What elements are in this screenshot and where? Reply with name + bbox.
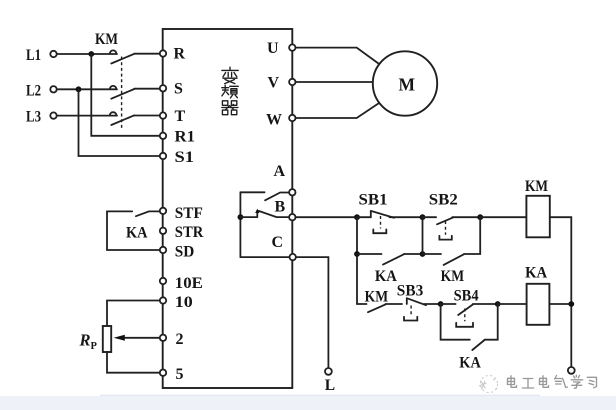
node rung1 left — [354, 214, 360, 220]
relay KA seal-in contact — [357, 254, 423, 265]
terminal STR — [160, 228, 166, 234]
node rung1 middle — [420, 214, 426, 220]
pushbutton SB3 (NC) — [404, 298, 439, 320]
svg-text:R: R — [174, 46, 186, 63]
svg-text:SD: SD — [175, 243, 195, 260]
terminal W — [289, 115, 295, 121]
svg-text:SB3: SB3 — [397, 283, 424, 300]
node L2/S1 tap junction — [76, 86, 82, 92]
watermark text char 电 — [540, 376, 549, 388]
terminal R — [160, 50, 166, 56]
wire W to motor — [296, 103, 380, 118]
coil KA — [527, 284, 550, 325]
wire U to motor — [296, 48, 380, 65]
node rung1 right — [477, 214, 483, 220]
contactor KM main contact phase R — [110, 50, 160, 63]
terminal R1 — [160, 133, 166, 139]
svg-text:S1: S1 — [175, 149, 195, 166]
terminal 5 — [160, 370, 166, 376]
terminal V — [289, 79, 295, 85]
terminal 2 — [160, 335, 166, 341]
terminal L3 — [50, 112, 56, 118]
terminal SD — [160, 247, 166, 253]
contactor KM main contact phase S — [110, 86, 160, 99]
pushbutton SB2 (NO start) — [423, 217, 479, 239]
node seal rung left — [354, 251, 360, 257]
terminal L — [325, 368, 332, 375]
terminal S1 — [160, 153, 166, 159]
svg-text:T: T — [175, 108, 186, 125]
svg-text:STF: STF — [175, 205, 203, 222]
terminal U — [289, 44, 295, 50]
watermark logo circle — [479, 375, 498, 392]
fault relay left loop vertical — [239, 192, 241, 257]
svg-text:L3: L3 — [26, 109, 41, 126]
svg-text:KA: KA — [525, 264, 547, 281]
wire L2 to KM contact — [57, 88, 117, 90]
svg-text:V: V — [268, 75, 280, 92]
watermark text char 学 — [571, 375, 582, 388]
svg-text:KM: KM — [365, 289, 389, 306]
svg-text:M: M — [399, 75, 416, 95]
svg-text:2: 2 — [176, 331, 184, 348]
wire left bus vertical — [356, 217, 358, 304]
terminal N (bottom right) — [568, 367, 575, 374]
contactor KM seal-in contact — [423, 217, 481, 265]
svg-text:B: B — [275, 199, 286, 216]
svg-text:10E: 10E — [175, 275, 203, 292]
terminal L2 — [50, 86, 56, 92]
watermark text char 习 — [587, 377, 596, 388]
svg-text:SB1: SB1 — [359, 191, 388, 208]
svg-text:10: 10 — [175, 294, 193, 311]
node rung2 right — [495, 301, 501, 307]
relay KA contact loop to STF — [107, 211, 160, 250]
svg-text:W: W — [266, 112, 282, 129]
contactor KM interlock contact rung2 — [357, 304, 402, 312]
terminal 10 — [160, 297, 166, 303]
motor M — [373, 51, 437, 115]
svg-text:KA: KA — [126, 224, 148, 241]
watermark text 电工电气学习 char 电 — [508, 376, 517, 388]
node right bus — [568, 301, 574, 307]
KM mechanical linkage dashed line — [121, 57, 123, 129]
bottom banner bar — [0, 396, 616, 410]
fault relay contact B side with wiper arrow — [240, 209, 289, 218]
svg-text:KM: KM — [525, 178, 548, 195]
svg-text:R1: R1 — [175, 128, 196, 145]
svg-text:KM: KM — [441, 268, 465, 285]
wire rung1 to KM coil — [480, 216, 526, 218]
relay KA parallel contact branch — [441, 304, 498, 350]
wire L3 to KM contact — [57, 115, 117, 117]
potentiometer RP body — [103, 326, 111, 352]
svg-text:S: S — [174, 81, 183, 98]
wire KM coil to right bus — [550, 217, 572, 367]
potentiometer wiper arrow to terminal 2 — [114, 335, 160, 341]
wire rung2 to KA coil — [498, 303, 527, 305]
label 变频器 char 变 — [222, 67, 238, 83]
wire L1 to KM contact — [57, 53, 117, 55]
wire rung1 middle to seal rung — [422, 217, 424, 254]
fault relay loop bottom wire to C — [240, 256, 289, 258]
pushbutton SB1 (NC stop) — [357, 211, 421, 233]
wire V to motor — [296, 81, 374, 83]
terminal 10E — [160, 278, 166, 284]
wire terminal 10 to potentiometer top — [107, 301, 160, 327]
svg-text:SB2: SB2 — [429, 191, 458, 208]
wire C to L terminal — [296, 257, 328, 367]
terminal B — [289, 214, 295, 220]
svg-text:L1: L1 — [26, 47, 41, 64]
wire tap L2 to S1 — [79, 89, 160, 156]
inverter box U1 — [163, 29, 293, 388]
svg-text:5: 5 — [176, 366, 184, 383]
wire tap L1 to R1 — [91, 54, 159, 136]
bottom banner top edge line — [100, 395, 540, 396]
terminal C — [290, 254, 296, 260]
node seal rung middle — [420, 251, 426, 257]
svg-text:KA: KA — [375, 268, 397, 285]
wire B to control rung 1 — [296, 216, 355, 218]
contactor KM main contact phase T — [110, 112, 160, 125]
svg-text:KM: KM — [95, 31, 118, 48]
svg-text:U: U — [267, 40, 279, 57]
svg-text:A: A — [274, 163, 286, 180]
fault relay contact A side — [240, 192, 289, 200]
node L1/R1 tap junction — [88, 51, 94, 57]
coil KM — [526, 196, 549, 238]
svg-text:P: P — [91, 341, 98, 352]
svg-text:R: R — [79, 331, 91, 350]
terminal S — [160, 85, 166, 91]
label 变频器 char 频 — [222, 85, 239, 98]
terminal L1 — [50, 51, 56, 57]
svg-text:L2: L2 — [26, 82, 41, 99]
svg-text:KA: KA — [459, 354, 481, 371]
svg-text:STR: STR — [175, 224, 204, 241]
svg-text:L: L — [325, 377, 335, 394]
svg-text:C: C — [272, 234, 284, 251]
terminal STF — [160, 208, 166, 214]
node rung2 middle — [438, 301, 444, 307]
watermark text char 工 — [522, 379, 533, 389]
terminal T — [160, 112, 166, 118]
wire potentiometer bottom to terminal 5 — [107, 352, 160, 373]
wire KA coil to right bus — [549, 303, 571, 305]
pushbutton SB4 (NO) — [441, 304, 496, 327]
node on relay loop at B row — [238, 214, 244, 220]
label 变频器 char 器 — [222, 101, 238, 115]
watermark text char 气 — [555, 376, 568, 388]
svg-text:SB4: SB4 — [454, 287, 479, 304]
terminal A — [289, 189, 295, 195]
